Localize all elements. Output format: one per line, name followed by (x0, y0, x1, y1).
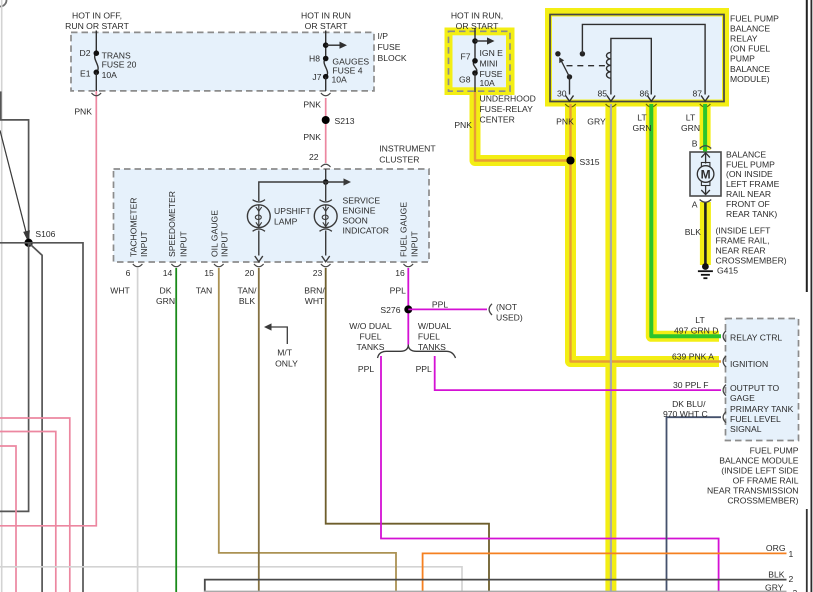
svg-text:FUEL PUMP: FUEL PUMP (726, 159, 775, 169)
svg-text:SOON: SOON (343, 216, 368, 226)
node S106 (24, 239, 32, 247)
svg-text:BALANCE: BALANCE (726, 149, 766, 159)
connector bracket (NOT USED) (489, 304, 492, 315)
connector cup above upshift lamp (253, 200, 265, 202)
svg-text:WHT: WHT (305, 296, 325, 306)
node S315 (567, 157, 575, 165)
wire into IGN E MINI FUSE from HOT IN RUN (474, 28, 476, 61)
svg-text:INPUT: INPUT (410, 230, 420, 257)
wire WHT horizontal near bottom (0, 567, 462, 592)
svg-text:30: 30 (557, 89, 567, 99)
svg-text:TACHOMETER: TACHOMETER (129, 197, 139, 257)
svg-text:DK: DK (160, 286, 172, 296)
wire right edge component (bottom) (806, 509, 808, 592)
svg-text:970 WHT C: 970 WHT C (663, 409, 708, 419)
svg-text:SPEEDOMETER: SPEEDOMETER (167, 191, 177, 257)
svg-text:(ON INSIDE: (ON INSIDE (726, 169, 773, 179)
svg-text:W/O DUAL: W/O DUAL (349, 321, 392, 331)
wire WHT vertical at far left edge (1, 0, 3, 592)
svg-text:OF FRAME RAIL: OF FRAME RAIL (733, 476, 799, 486)
svg-text:10A: 10A (480, 78, 496, 88)
svg-text:OIL GAUGE: OIL GAUGE (210, 210, 220, 257)
svg-text:LEFT FRAME: LEFT FRAME (726, 179, 780, 189)
node S213 (322, 116, 330, 124)
svg-text:FUEL PUMP: FUEL PUMP (750, 446, 799, 456)
svg-text:TAN: TAN (196, 286, 213, 296)
svg-text:RELAY CTRL: RELAY CTRL (730, 333, 782, 343)
wire PNK entering left edge y=431.5 (0, 432, 56, 592)
svg-text:DK BLU/: DK BLU/ (672, 399, 706, 409)
lamp UPSHIFT LAMP (247, 205, 270, 228)
wire SES lamp to pin 23 arrow (325, 231, 327, 256)
svg-text:ENGINE: ENGINE (343, 206, 376, 216)
svg-text:FRONT OF: FRONT OF (726, 199, 770, 209)
wire PPL from S276 to not-used connector (408, 308, 487, 310)
svg-text:PRIMARY TANK: PRIMARY TANK (730, 404, 794, 414)
wire right edge component (top) (806, 0, 808, 292)
svg-text:TANKS: TANKS (418, 342, 446, 352)
wire GRY core relay pin 85 down (610, 104, 612, 592)
wire WHT pin 6 down (137, 268, 139, 592)
svg-text:PUMP: PUMP (730, 54, 755, 64)
svg-text:E1: E1 (80, 69, 91, 79)
wire LT GRN core relay pin 87 to pump B (703, 104, 707, 152)
relay switch blade with arrowhead (561, 60, 570, 77)
underhood mini fuse box (449, 31, 511, 91)
svg-text:SERVICE: SERVICE (343, 196, 381, 206)
fuel pump balance relay box (550, 15, 724, 102)
wire PNK entering left edge y=446 (0, 446, 16, 592)
svg-text:PPL: PPL (416, 364, 432, 374)
svg-text:GRN: GRN (156, 296, 175, 306)
svg-text:22: 22 (309, 152, 319, 162)
svg-text:S315: S315 (580, 157, 600, 167)
wire highlight: relay pin 85 GRY wire (yellow) (605, 104, 616, 592)
svg-text:30 PPL F: 30 PPL F (673, 380, 709, 390)
svg-text:I/P: I/P (378, 31, 389, 41)
wire DK BLU/WHT to module pin C (667, 417, 722, 592)
svg-text:GRN: GRN (681, 123, 700, 133)
wire GAUGES fuse output to box edge (325, 77, 327, 91)
svg-text:3: 3 (793, 588, 798, 592)
svg-text:NEAR TRANSMISSION: NEAR TRANSMISSION (707, 486, 799, 496)
brace fuel tank options split (378, 345, 456, 359)
svg-text:HOT IN RUN,: HOT IN RUN, (451, 11, 503, 21)
relay coil (610, 52, 612, 78)
svg-text:PPL: PPL (390, 286, 406, 296)
svg-text:BLOCK: BLOCK (378, 53, 407, 63)
svg-text:HOT IN RUN: HOT IN RUN (301, 11, 351, 21)
svg-text:LT: LT (695, 315, 705, 325)
svg-text:10A: 10A (102, 70, 118, 80)
wire DK GRN pin 14 down (175, 268, 177, 592)
svg-text:RUN OR START: RUN OR START (65, 21, 129, 31)
wire upshift lamp to pin 20 arrow (258, 231, 260, 256)
svg-text:B: B (692, 139, 698, 149)
wire TAN pin 15 down and right (219, 268, 396, 592)
svg-text:GAGE: GAGE (730, 393, 755, 403)
wire cluster pin 22 entry (325, 169, 327, 182)
svg-text:FUSE 20: FUSE 20 (102, 60, 137, 70)
wire dark stub entering from left top (0, 91, 2, 120)
wire highlight: pump BLK ground wire (yellow) (700, 202, 711, 265)
node bus junction above mini fuse (472, 38, 478, 44)
connector cup below fuse block left pin (92, 93, 102, 96)
svg-text:H8: H8 (309, 54, 320, 64)
svg-text:A: A (692, 200, 698, 210)
svg-text:OUTPUT TO: OUTPUT TO (730, 383, 779, 393)
arrow bus feed right of GAUGES fuse (326, 44, 340, 46)
svg-text:86: 86 (639, 89, 649, 99)
svg-text:BALANCE: BALANCE (730, 64, 770, 74)
node S315 (redrawn on top) (567, 157, 575, 165)
svg-text:INPUT: INPUT (139, 230, 149, 257)
wire PNK core relay pin 30 to module pin A (571, 104, 722, 362)
svg-text:2: 2 (789, 574, 794, 584)
wire PPL pin 16 down to S276 (407, 268, 409, 345)
wire TRANS fuse output to box edge (95, 72, 97, 91)
svg-text:ORG: ORG (766, 543, 786, 553)
wire BLK core pump A to G415 (704, 202, 707, 266)
svg-text:INDICATOR: INDICATOR (343, 226, 389, 236)
svg-text:FUEL LEVEL: FUEL LEVEL (730, 414, 781, 424)
svg-text:LT: LT (686, 113, 696, 123)
wire stub arc top-left corner (0, 0, 7, 7)
svg-text:10A: 10A (332, 75, 348, 85)
svg-text:16: 16 (395, 268, 405, 278)
svg-text:RAIL NEAR: RAIL NEAR (726, 189, 771, 199)
svg-text:PNK: PNK (303, 100, 321, 110)
wire mini fuse output to box edge (474, 73, 476, 92)
svg-text:INPUT: INPUT (220, 230, 230, 257)
svg-text:BALANCE: BALANCE (730, 24, 770, 34)
motor M circle (697, 166, 714, 183)
svg-text:BRN/: BRN/ (304, 286, 325, 296)
svg-text:ONLY: ONLY (275, 359, 298, 369)
svg-text:23: 23 (313, 268, 323, 278)
svg-text:F7: F7 (460, 52, 470, 62)
svg-text:USED): USED) (496, 312, 523, 322)
wire PPL w/dual tanks branch to module pin F (435, 356, 721, 390)
wire TAN/BLK pin 20 down (258, 268, 260, 592)
pump internal bottom arrow (705, 186, 707, 195)
arrow bus feed right inside cluster (326, 181, 344, 183)
svg-text:85: 85 (597, 89, 607, 99)
svg-text:INPUT: INPUT (179, 230, 189, 257)
connector cap below upshift lamp (253, 229, 265, 231)
svg-text:UPSHIFT: UPSHIFT (274, 206, 312, 216)
svg-text:NEAR REAR: NEAR REAR (716, 245, 766, 255)
module pin brackets D A F C (723, 331, 726, 342)
svg-text:RELAY: RELAY (730, 34, 758, 44)
node junction inside cluster (323, 179, 329, 185)
svg-text:(INSIDE LEFT: (INSIDE LEFT (716, 226, 772, 236)
svg-text:LAMP: LAMP (274, 217, 298, 227)
wire junction down to SES lamp (325, 182, 327, 201)
svg-text:1: 1 (789, 549, 794, 559)
svg-text:PNK: PNK (556, 117, 574, 127)
node S276 (404, 305, 412, 313)
svg-text:FUEL: FUEL (360, 332, 382, 342)
connector cups below cluster pins (133, 264, 143, 267)
svg-text:UNDERHOOD: UNDERHOOD (480, 94, 536, 104)
svg-text:INSTRUMENT: INSTRUMENT (379, 144, 436, 154)
svg-text:FUSE: FUSE (378, 42, 401, 52)
svg-text:HOT IN OFF,: HOT IN OFF, (72, 11, 122, 21)
wire relay switch to pin 30 (569, 77, 571, 95)
connector cap above pump B (700, 146, 712, 149)
wire relay pin 87 internal path (582, 24, 705, 94)
wire highlight: PNK feed from IGN E MINI FUSE to S315 (yellow) (475, 92, 571, 161)
pump internal top arrow (705, 153, 707, 164)
svg-text:CLUSTER: CLUSTER (379, 155, 419, 165)
svg-text:BLK: BLK (685, 227, 702, 237)
wire into TRANS fuse from HOT IN OFF (95, 31, 97, 54)
svg-text:PNK: PNK (303, 132, 321, 142)
svg-text:BLK: BLK (768, 570, 785, 580)
svg-text:(NOT: (NOT (496, 302, 518, 312)
svg-text:20: 20 (245, 268, 255, 278)
svg-text:REAR TANK): REAR TANK) (726, 209, 777, 219)
fuse TRANS FUSE 20 element (95, 53, 98, 72)
svg-text:G8: G8 (459, 75, 471, 85)
svg-text:FUEL PUMP: FUEL PUMP (730, 14, 779, 24)
svg-text:D2: D2 (80, 48, 91, 58)
svg-text:TAN/: TAN/ (238, 286, 258, 296)
svg-text:M/T: M/T (277, 348, 293, 358)
wire into GAUGES fuse from HOT IN RUN (325, 31, 327, 59)
svg-text:GRN: GRN (632, 123, 651, 133)
wire PPL w/o dual tanks branch (381, 356, 719, 592)
svg-text:PNK: PNK (74, 107, 92, 117)
dashed link switch to coil (567, 65, 610, 67)
svg-text:FRAME RAIL,: FRAME RAIL, (716, 236, 770, 246)
underhood mini fuse box yellow highlight ring (445, 28, 515, 96)
relay switch common dot (567, 74, 572, 79)
wire GRY bottom edge (204, 590, 787, 592)
svg-text:6: 6 (126, 268, 131, 278)
svg-text:G415: G415 (717, 266, 738, 276)
wire dark diagonal branch from S106 down (29, 243, 42, 592)
svg-text:BLK: BLK (239, 296, 256, 306)
page border right edge (810, 0, 812, 592)
wire LT GRN core relay pin 86 to module pin D (651, 104, 721, 336)
connector cups below relay pins (565, 104, 576, 107)
svg-text:CROSSMEMBER): CROSSMEMBER) (727, 496, 798, 506)
svg-text:MODULE): MODULE) (730, 74, 770, 84)
wire PNK entering left edge y=418 (0, 418, 70, 592)
wire highlight: relay pin 30 PNK wire down to IGNITION pin A (yellow) (571, 104, 720, 362)
wire dark from S106 down, exits left at y=511 (0, 243, 29, 512)
svg-text:WHT: WHT (110, 286, 130, 296)
balance fuel pump box (690, 152, 721, 196)
svg-text:OR START: OR START (305, 21, 348, 31)
wire ORG bottom (423, 553, 787, 592)
svg-text:BALANCE MODULE: BALANCE MODULE (719, 456, 799, 466)
svg-text:LT: LT (637, 113, 647, 123)
relay switch contact dot (top-left) (555, 51, 560, 56)
svg-text:S276: S276 (380, 305, 400, 315)
svg-text:(INSIDE LEFT SIDE: (INSIDE LEFT SIDE (721, 466, 798, 476)
fuse GAUGES FUSE 4 element (324, 59, 327, 77)
svg-text:SIGNAL: SIGNAL (730, 424, 762, 434)
wire PNK core from mini fuse to S315 (475, 92, 571, 161)
wire BRN/WHT pin 23 down and right (326, 268, 489, 592)
instrument cluster box (114, 169, 430, 262)
svg-text:IGN E: IGN E (480, 48, 504, 58)
svg-text:15: 15 (204, 268, 214, 278)
svg-text:(ON FUEL: (ON FUEL (730, 44, 770, 54)
svg-text:497 GRN D: 497 GRN D (674, 326, 718, 336)
svg-text:PNK: PNK (454, 120, 472, 130)
ground G415 (702, 263, 709, 270)
svg-text:CENTER: CENTER (480, 115, 515, 125)
svg-text:639 PNK A: 639 PNK A (672, 352, 714, 362)
svg-text:FUEL: FUEL (418, 332, 440, 342)
svg-text:MINI: MINI (480, 59, 498, 69)
wire highlight: relay pin 87 LT GRN wire to pump B (yellow) (700, 104, 711, 150)
connector cap above cluster pin 22 (321, 164, 331, 167)
svg-text:GRY: GRY (765, 583, 784, 592)
svg-text:S213: S213 (335, 116, 355, 126)
svg-text:87: 87 (692, 89, 702, 99)
wire relay coil top to pin 86 (611, 38, 651, 94)
svg-text:W/DUAL: W/DUAL (418, 321, 452, 331)
svg-text:CROSSMEMBER): CROSSMEMBER) (716, 255, 787, 265)
svg-text:GRY: GRY (587, 117, 606, 127)
connector cup below pump A (700, 200, 712, 203)
fuel pump balance module box (726, 319, 799, 441)
wire dark from left edge to S106 (0, 120, 29, 243)
wire dark horizontal through S106 turning down at x=83 (0, 243, 83, 592)
motor M brushes (701, 163, 710, 167)
wire relay coil bottom to pin 85 (610, 78, 612, 94)
svg-text:TANKS: TANKS (356, 342, 384, 352)
I/P fuse block box (71, 32, 374, 91)
fuel pump balance relay box yellow highlight ring (545, 8, 729, 107)
lamp SERVICE ENGINE SOON INDICATOR (314, 205, 337, 228)
fuse IGN E MINI FUSE element (473, 61, 476, 73)
svg-text:14: 14 (163, 268, 173, 278)
svg-text:FUSE-RELAY: FUSE-RELAY (480, 104, 534, 114)
wire junction to upshift lamp (259, 182, 326, 201)
svg-text:OR START: OR START (456, 21, 499, 31)
arrow M/T ONLY pointer (271, 327, 287, 344)
connector cup above SES lamp (320, 200, 332, 202)
svg-text:PPL: PPL (432, 300, 448, 310)
connector cap below SES lamp (320, 229, 332, 231)
wire BLK bottom (205, 580, 787, 592)
svg-text:J7: J7 (312, 72, 321, 82)
svg-text:PPL: PPL (358, 364, 374, 374)
svg-text:M: M (701, 167, 711, 181)
node bus junction above GAUGES fuse (323, 42, 329, 48)
relay pin 87 contact dot (580, 51, 585, 56)
wire PNK from TRANS fuse down, exits left at y=526 (0, 91, 96, 526)
arrow bus feed right of mini fuse (475, 40, 488, 42)
connector cup below fuse block right pin (321, 93, 331, 96)
wire arrow diagonal into S106 (0, 130, 26, 233)
svg-text:IGNITION: IGNITION (730, 359, 768, 369)
svg-text:FUEL GAUGE: FUEL GAUGE (399, 202, 409, 257)
wire PNK from GAUGES fuse to cluster pin 22 (325, 98, 327, 163)
wire highlight: relay pin 86 LT GRN wire to RELAY CTRL pin D (yellow) (651, 104, 719, 336)
svg-text:S106: S106 (35, 229, 55, 239)
